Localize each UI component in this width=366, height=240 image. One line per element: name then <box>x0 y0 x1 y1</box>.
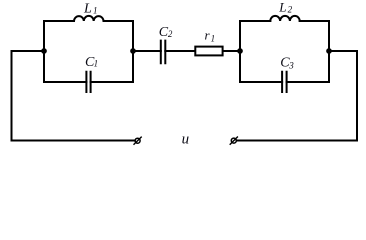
svg-text:2: 2 <box>288 4 293 14</box>
capacitor C1 <box>86 71 90 93</box>
wire: left tank bottom side segments <box>44 81 133 83</box>
wire: main wire left tank to C2 <box>133 50 161 52</box>
svg-text:L: L <box>83 2 92 17</box>
label L2 <box>278 0 292 14</box>
label C3 <box>280 55 294 70</box>
svg-text:1: 1 <box>211 34 216 44</box>
svg-text:2: 2 <box>168 29 173 39</box>
wire: left outer vertical <box>11 51 13 141</box>
wire: bottom right horizontal from terminal <box>237 140 357 142</box>
capacitor C3 <box>282 71 287 93</box>
terminal right (circle with slash) <box>230 137 238 145</box>
wire: left tank left vertical side <box>43 21 45 82</box>
wire: C2 to resistor r1 <box>165 50 194 52</box>
node A junction dot left tank left <box>41 48 47 54</box>
terminal left (circle with slash) <box>134 137 142 145</box>
wire: right lead from right tank to outer right corner <box>329 50 357 52</box>
wire: left tank right vertical side <box>132 21 134 82</box>
svg-text:L: L <box>278 0 286 14</box>
wire: left tank top side segments <box>44 20 133 22</box>
svg-text:r: r <box>205 27 211 42</box>
svg-text:1: 1 <box>94 59 99 69</box>
wire: right tank left vertical side <box>239 21 241 82</box>
wire: right outer vertical <box>356 51 358 141</box>
svg-text:1: 1 <box>93 6 98 16</box>
wire: left lead from node A to outer left corner <box>12 50 45 52</box>
label L1 <box>83 2 98 17</box>
wire: resistor r1 to right tank node <box>223 50 240 52</box>
node C junction dot right tank left <box>237 48 243 54</box>
svg-text:u: u <box>182 132 190 148</box>
resistor r1 <box>195 47 222 56</box>
wire: right tank top side segments <box>240 20 329 22</box>
node D junction dot right tank right <box>326 48 332 54</box>
wire: right tank bottom side segments <box>240 81 329 83</box>
capacitor C2 <box>161 40 166 65</box>
node B junction dot left tank right <box>130 48 136 54</box>
inductor L1 <box>74 16 104 21</box>
label r1 <box>205 27 216 43</box>
wire: bottom left horizontal to terminal <box>12 140 135 142</box>
wire: right tank right vertical side <box>328 21 330 82</box>
inductor L2 <box>270 16 299 21</box>
label C1 <box>85 55 98 70</box>
svg-text:3: 3 <box>288 60 294 70</box>
label C2 <box>159 25 173 40</box>
